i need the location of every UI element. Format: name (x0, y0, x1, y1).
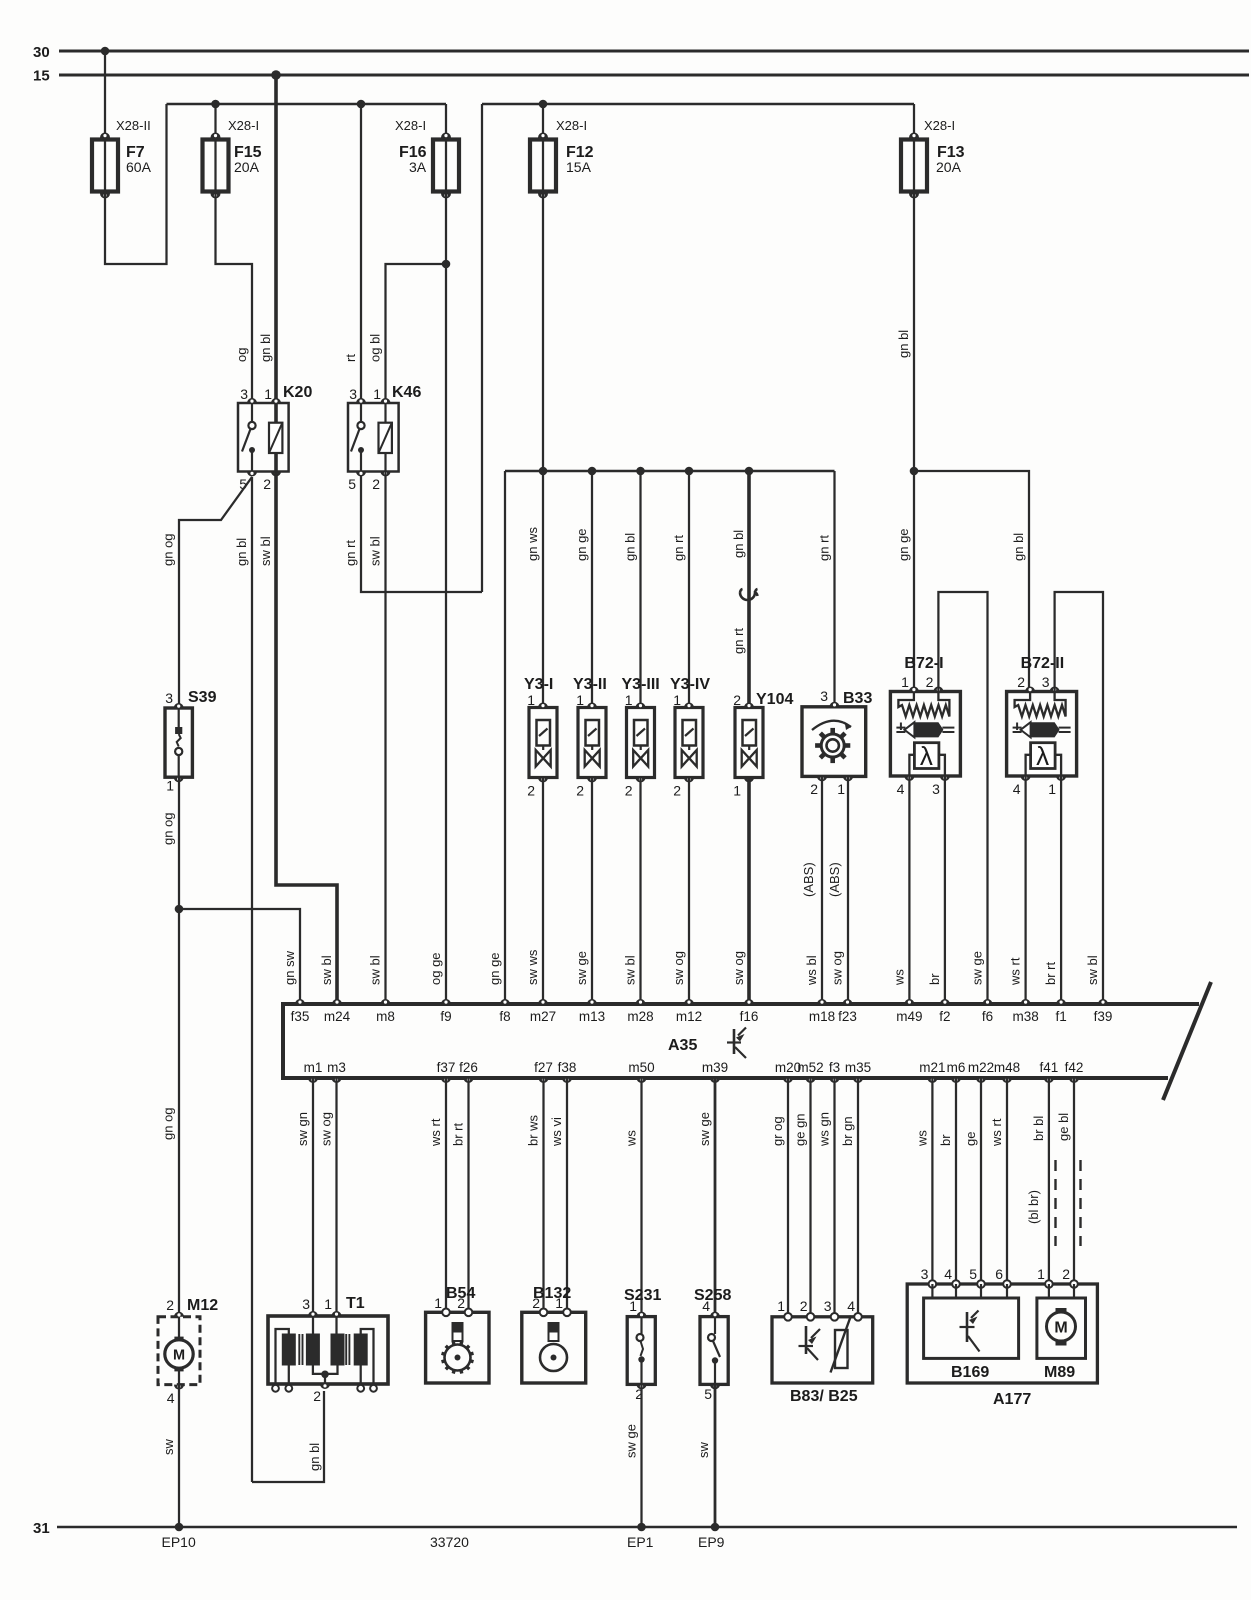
svg-text:gn bl: gn bl (1011, 533, 1026, 561)
svg-text:ws rt: ws rt (1008, 957, 1023, 986)
svg-text:ws rt: ws rt (428, 1118, 443, 1147)
switch S258 (694, 1287, 731, 1402)
svg-text:λ: λ (920, 741, 933, 771)
svg-text:1: 1 (166, 778, 174, 794)
svg-text:1: 1 (527, 692, 535, 708)
pin A35/f38 (562, 1078, 572, 1083)
pin A35/f8 (500, 999, 510, 1004)
wire A35 m3 sw og to T1 pin1 (335, 1078, 337, 1316)
pin A35/m35 (853, 1078, 863, 1083)
svg-text:og: og (234, 348, 249, 362)
svg-text:3: 3 (1042, 674, 1050, 690)
svg-text:m38: m38 (1012, 1009, 1038, 1024)
svg-text:3A: 3A (409, 159, 427, 175)
svg-text:m3: m3 (327, 1060, 346, 1075)
svg-text:3: 3 (302, 1296, 310, 1312)
svg-text:og bl: og bl (368, 334, 383, 362)
svg-text:ws: ws (891, 969, 906, 986)
svg-text:2: 2 (926, 674, 934, 690)
wire A35 m6 br to A177 pin4 (955, 1078, 957, 1284)
svg-text:M89: M89 (1044, 1364, 1075, 1381)
fuse F16 (433, 140, 459, 192)
svg-text:20A: 20A (234, 159, 260, 175)
svg-text:5: 5 (704, 1386, 712, 1402)
wire valve supply bus (505, 470, 835, 473)
svg-text:1: 1 (625, 692, 633, 708)
pin A35/f6 (983, 999, 993, 1004)
wire F16 output og ge to A35 f9 (445, 192, 447, 1001)
solenoid valve Y3-IV (670, 676, 710, 799)
svg-text:1: 1 (673, 692, 681, 708)
svg-text:X28-I: X28-I (924, 118, 955, 133)
svg-text:1: 1 (373, 386, 381, 402)
pin A35/m48 (1002, 1078, 1012, 1083)
pin A35/m8 (381, 999, 391, 1004)
svg-text:f16: f16 (740, 1009, 759, 1024)
wire rail to F15 (214, 104, 216, 140)
svg-text:15A: 15A (566, 159, 592, 175)
svg-text:sw bl: sw bl (623, 955, 638, 985)
svg-text:gn ge: gn ge (487, 952, 502, 985)
svg-text:og ge: og ge (428, 952, 443, 985)
pin A35/f41 (1044, 1078, 1054, 1083)
pin A35/m27 (538, 999, 548, 1004)
wire B72-I pin4 ws to A35 m49 (908, 776, 910, 1000)
svg-text:EP10: EP10 (162, 1534, 196, 1550)
pin A35/f1 (1056, 999, 1066, 1004)
svg-text:ws bl: ws bl (804, 955, 819, 986)
svg-text:sw: sw (161, 1439, 176, 1456)
wire A35 f3 ws gn to B83 pin3 (833, 1078, 835, 1317)
fuse F7 (92, 140, 118, 192)
switch S231 (624, 1287, 661, 1402)
wire A35 m39 sw ge to S258 pin4 (714, 1078, 717, 1317)
pin A35/m6 (951, 1078, 961, 1083)
svg-text:f23: f23 (838, 1009, 857, 1024)
svg-text:K20: K20 (283, 384, 312, 401)
wire A35 f41 br bl to A177 pin1 (1048, 1078, 1050, 1284)
svg-text:gn bl: gn bl (234, 538, 249, 566)
wire rail to F12 (542, 104, 544, 140)
svg-text:sw ge: sw ge (697, 1112, 712, 1146)
wire alternate colour dash mark f41 (1054, 1160, 1056, 1246)
svg-text:ws vi: ws vi (549, 1117, 564, 1147)
svg-text:ge bl: ge bl (1056, 1113, 1071, 1141)
svg-text:B33: B33 (843, 690, 872, 707)
wire Y3-I sw ws to A35 m27 (542, 778, 544, 1001)
svg-text:Y3-IV: Y3-IV (670, 676, 710, 693)
svg-text:2: 2 (166, 1297, 174, 1313)
svg-text:gn og: gn og (161, 1107, 176, 1140)
wire F13 output gn bl (913, 192, 915, 472)
wire terminal 31 ground rail (57, 1526, 1237, 1529)
svg-text:X28-II: X28-II (116, 118, 151, 133)
svg-text:3: 3 (240, 386, 248, 402)
svg-text:m48: m48 (994, 1060, 1020, 1075)
svg-text:m8: m8 (376, 1009, 395, 1024)
svg-text:1: 1 (777, 1298, 785, 1314)
svg-text:m35: m35 (845, 1060, 871, 1075)
wire rail to F16 (445, 104, 447, 140)
wire A35 m35 br gn to B83 pin4 (857, 1078, 859, 1317)
switch S39 (165, 689, 217, 794)
svg-text:sw gn: sw gn (295, 1112, 310, 1146)
svg-text:sw og: sw og (731, 951, 746, 985)
pin A35/m24 (332, 999, 342, 1004)
svg-text:X28-I: X28-I (228, 118, 259, 133)
svg-text:(ABS): (ABS) (801, 862, 816, 897)
svg-text:4: 4 (847, 1298, 855, 1314)
svg-text:20A: 20A (936, 159, 962, 175)
svg-text:S231: S231 (624, 1287, 661, 1304)
wire A35 f26 br rt to B54 pin2 (467, 1078, 469, 1312)
wire bus to Y104 gn bl / gn rt thick (747, 471, 751, 708)
svg-text:Y104: Y104 (756, 691, 793, 708)
wire A35 m1 sw gn to T1 pin3 (312, 1078, 314, 1316)
svg-text:1: 1 (837, 781, 845, 797)
svg-text:m22: m22 (968, 1060, 994, 1075)
svg-text:B169: B169 (951, 1364, 989, 1381)
svg-text:sw bl: sw bl (368, 955, 383, 985)
svg-text:2: 2 (625, 783, 633, 799)
pin A35/f16 (744, 999, 754, 1004)
wire A35 m50 ws to S231 pin1 (640, 1078, 642, 1317)
pin A35/m38 (1021, 999, 1031, 1004)
wire bus tap gn ge to A35 f8 (504, 471, 506, 1000)
pin A35/m39 (710, 1078, 720, 1083)
svg-text:B54: B54 (446, 1285, 475, 1302)
svg-text:gn rt: gn rt (343, 540, 358, 566)
pin A35/m20 (783, 1078, 793, 1083)
lambda probe B72-I (890, 655, 960, 797)
svg-text:3: 3 (165, 690, 173, 706)
splice arrow on Y104 feed (740, 589, 758, 600)
sensor B33 (802, 688, 872, 797)
wire B72-II pin1 br rt to A35 f1 (1060, 776, 1062, 1000)
svg-text:S39: S39 (188, 689, 217, 706)
solenoid valve Y3-III (622, 676, 660, 799)
svg-text:sw og: sw og (671, 951, 686, 985)
svg-text:m39: m39 (702, 1060, 728, 1075)
svg-text:f3: f3 (829, 1060, 840, 1075)
node junction 30/F7 (101, 47, 110, 56)
svg-text:gn og: gn og (161, 533, 176, 566)
ground EP9 (711, 1523, 720, 1532)
svg-text:sw ws: sw ws (525, 949, 540, 985)
pin A35/f42 (1069, 1078, 1079, 1083)
svg-text:3: 3 (824, 1298, 832, 1314)
pin A35/m12 (684, 999, 694, 1004)
control unit A177 (907, 1266, 1097, 1408)
wire K20 pin2 sw bl thick to A35 m24 (276, 472, 337, 1001)
pin A35/f37 (441, 1078, 451, 1083)
wire S258 pin5 sw to ground EP9 (714, 1384, 717, 1527)
ignition coil T1 (268, 1295, 388, 1404)
svg-text:M: M (1054, 1320, 1067, 1337)
svg-text:5: 5 (348, 476, 356, 492)
wire B33 pin1 sw og to A35 f23 (847, 776, 849, 1000)
wire A35 m52 ge gn to B83 pin2 (809, 1078, 811, 1317)
svg-text:1: 1 (1037, 1266, 1045, 1282)
svg-text:br bl: br bl (1031, 1116, 1046, 1141)
svg-text:A35: A35 (668, 1037, 697, 1054)
pin A35/m18 (817, 999, 827, 1004)
svg-text:gn rt: gn rt (817, 535, 832, 561)
svg-text:31: 31 (33, 1520, 50, 1537)
pin A35/f9 (441, 999, 451, 1004)
pin A35/m49 (904, 999, 914, 1004)
node F16 output branch (442, 260, 451, 269)
svg-text:m50: m50 (628, 1060, 654, 1075)
svg-text:br gn: br gn (840, 1116, 855, 1146)
svg-text:K46: K46 (392, 384, 421, 401)
svg-text:sw bl: sw bl (368, 536, 383, 566)
sensor B132 (522, 1285, 586, 1383)
wire A35 m48 ws rt to A177 pin6 (1006, 1078, 1008, 1284)
node bus x543 (539, 467, 548, 476)
wire bus to Y3-I gn ws (542, 471, 544, 708)
sensor B54 (426, 1285, 489, 1383)
svg-text:m28: m28 (627, 1009, 653, 1024)
wire F12 output to valve bus (542, 192, 544, 472)
wire K20 pin5 gn og to S39 pin3 (179, 477, 252, 708)
wire F15 output to K20 pin3 og (216, 192, 253, 404)
svg-text:m6: m6 (947, 1060, 966, 1075)
ground EP10 (175, 1523, 184, 1532)
wire B72-II pin4 ws rt to A35 m38 (1024, 776, 1026, 1000)
node bus x749 (745, 467, 754, 476)
wire A35 f37 ws rt to B54 pin1 (445, 1078, 447, 1312)
wire S231 pin2 sw ge to ground EP1 (640, 1384, 642, 1527)
svg-text:sw: sw (696, 1442, 711, 1459)
svg-text:2: 2 (673, 783, 681, 799)
ground EP1 (637, 1523, 646, 1532)
wire rail to K46 pin3 rt (360, 104, 362, 403)
node bus x689 (685, 467, 694, 476)
node S39 branch (175, 905, 184, 914)
sensor B83/B25 (772, 1298, 873, 1405)
svg-text:gn rt: gn rt (731, 628, 746, 654)
fuse F12 (530, 140, 556, 192)
pin A35/f26 (464, 1078, 474, 1083)
svg-text:1: 1 (264, 386, 272, 402)
wire 15 gn bl thick to K20 pin1 (274, 75, 278, 403)
svg-text:f38: f38 (558, 1060, 577, 1075)
svg-text:2: 2 (372, 476, 380, 492)
svg-text:Y3-II: Y3-II (573, 676, 607, 693)
svg-text:sw ge: sw ge (624, 1424, 639, 1458)
svg-text:f26: f26 (459, 1060, 478, 1075)
svg-text:4: 4 (944, 1266, 952, 1282)
solenoid valve Y3-I (524, 676, 557, 799)
wire X28 rail right segment (482, 103, 914, 106)
pin A35/f27 (539, 1078, 549, 1083)
svg-text:f8: f8 (499, 1009, 510, 1024)
svg-text:m1: m1 (304, 1060, 323, 1075)
svg-text:f35: f35 (291, 1009, 310, 1024)
svg-text:f27: f27 (534, 1060, 553, 1075)
relay K20 (238, 384, 312, 492)
pin A35/m52 (806, 1078, 816, 1083)
wire S39 pin1 gn og down to M12 (178, 777, 180, 1316)
pin A35/f35 (295, 999, 305, 1004)
wire F13 gn ge to B72-I pin1 (913, 471, 915, 692)
svg-text:Y3-III: Y3-III (622, 676, 660, 693)
svg-text:sw bl: sw bl (319, 955, 334, 985)
wire terminal 30 bus (59, 50, 1249, 53)
pin A35/f2 (940, 999, 950, 1004)
svg-text:Y3-I: Y3-I (524, 676, 553, 693)
pin A35/f23 (843, 999, 853, 1004)
svg-text:sw og: sw og (830, 951, 845, 985)
svg-text:gn ws: gn ws (525, 527, 540, 561)
svg-text:EP9: EP9 (698, 1534, 725, 1550)
node bus x640.5 (636, 467, 645, 476)
wire gn bl bottom jog to T1 pin2 (252, 1391, 324, 1482)
pin A35/m21 (927, 1078, 937, 1083)
svg-text:(bl br): (bl br) (1026, 1190, 1041, 1224)
svg-text:sw ge: sw ge (970, 951, 985, 985)
svg-text:X28-I: X28-I (395, 118, 426, 133)
svg-text:30: 30 (33, 44, 50, 61)
node rail/F12 (539, 100, 548, 109)
svg-text:1: 1 (434, 1295, 442, 1311)
svg-text:1: 1 (733, 783, 741, 799)
svg-text:S258: S258 (694, 1287, 731, 1304)
svg-text:m52: m52 (797, 1060, 823, 1075)
svg-text:sw bl: sw bl (1085, 955, 1100, 985)
svg-text:2: 2 (527, 783, 535, 799)
svg-text:f39: f39 (1094, 1009, 1113, 1024)
svg-text:f41: f41 (1040, 1060, 1059, 1075)
svg-text:M: M (173, 1348, 185, 1364)
wire A35 f38 ws vi to B132 pin1 (566, 1078, 568, 1312)
svg-text:m12: m12 (676, 1009, 702, 1024)
svg-text:(ABS): (ABS) (827, 862, 842, 897)
svg-text:B132: B132 (533, 1285, 571, 1302)
svg-text:gn rt: gn rt (671, 535, 686, 561)
wire bus to Y3-IV gn rt (688, 471, 690, 708)
wire X28 rail left segment (167, 103, 447, 106)
svg-text:2: 2 (733, 692, 741, 708)
svg-text:sw bl: sw bl (258, 536, 273, 566)
wire K46 pin2 sw bl to A35 m8 (384, 472, 386, 1001)
svg-text:f42: f42 (1065, 1060, 1084, 1075)
svg-text:3: 3 (820, 688, 828, 704)
svg-text:gn bl: gn bl (258, 334, 273, 362)
svg-text:gn ge: gn ge (574, 528, 589, 561)
svg-text:ws: ws (624, 1130, 639, 1147)
pin A35/m28 (636, 999, 646, 1004)
svg-text:m24: m24 (324, 1009, 351, 1024)
pin A35/m22 (976, 1078, 986, 1083)
wire F16 branch og bl to K46 pin1 (386, 264, 447, 403)
node junction 15/K20 (271, 70, 281, 80)
wire F13 branch gn bl to B72-II pin2 (914, 471, 1029, 692)
svg-text:ge: ge (963, 1132, 978, 1146)
svg-text:3: 3 (349, 386, 357, 402)
svg-text:6: 6 (995, 1266, 1003, 1282)
svg-text:ws: ws (914, 1130, 929, 1147)
wire F7 output to X28 rail (105, 104, 167, 264)
svg-text:gn bl: gn bl (896, 330, 911, 358)
wire M12 pin4 sw to ground 31 (178, 1384, 180, 1527)
wire rail to F13 (913, 104, 915, 140)
svg-text:f1: f1 (1055, 1009, 1066, 1024)
svg-text:2: 2 (1017, 674, 1025, 690)
svg-text:f6: f6 (982, 1009, 993, 1024)
svg-text:3: 3 (932, 781, 940, 797)
svg-text:EP1: EP1 (627, 1534, 654, 1550)
svg-text:4: 4 (167, 1390, 175, 1406)
wire A35 m21 ws to A177 pin3 (931, 1078, 933, 1284)
wire alternate colour dash mark f42 (1079, 1160, 1081, 1246)
wire Y3-II sw ge to A35 m13 (591, 778, 593, 1001)
svg-text:2: 2 (263, 476, 271, 492)
wire Y104 sw og thick to A35 f16 (747, 778, 751, 1001)
motor M12 (158, 1297, 218, 1406)
svg-text:gr og: gr og (770, 1116, 785, 1146)
wire rail riser to K46 pin5 feed (481, 104, 483, 592)
svg-text:gn sw: gn sw (282, 950, 297, 985)
wire gn sw branch to A35 f35 (179, 909, 300, 1000)
wire B72-I pin2 sw ge to A35 f6 (938, 592, 987, 1000)
svg-text:1: 1 (324, 1296, 332, 1312)
svg-text:gn bl: gn bl (623, 533, 638, 561)
wire K20 pin5 gn bl long down (251, 477, 253, 1482)
svg-text:B72-II: B72-II (1021, 655, 1065, 672)
svg-text:1: 1 (901, 674, 909, 690)
svg-text:2: 2 (800, 1298, 808, 1314)
pin A35/f39 (1098, 999, 1108, 1004)
svg-text:f37: f37 (437, 1060, 456, 1075)
svg-text:4: 4 (897, 781, 905, 797)
pin A35/m13 (587, 999, 597, 1004)
svg-text:m13: m13 (579, 1009, 605, 1024)
wire A35 f27 br ws to B132 pin2 (542, 1078, 544, 1312)
svg-text:60A: 60A (126, 159, 152, 175)
svg-text:m49: m49 (896, 1009, 922, 1024)
svg-text:X28-I: X28-I (556, 118, 587, 133)
solenoid valve Y3-II (573, 676, 607, 799)
node rail/F15 (211, 100, 220, 109)
svg-text:2: 2 (313, 1388, 321, 1404)
svg-text:f2: f2 (939, 1009, 950, 1024)
lambda probe B72-II (1007, 655, 1077, 797)
wire A35 m20 gr og to B83 pin1 (787, 1078, 789, 1317)
svg-text:1: 1 (576, 692, 584, 708)
svg-text:M12: M12 (187, 1297, 218, 1314)
transistor icon in A35 (733, 1029, 736, 1054)
svg-text:1: 1 (1048, 781, 1056, 797)
svg-text:5: 5 (969, 1266, 977, 1282)
wire A35 m22 ge to A177 pin5 (980, 1078, 982, 1284)
motor M89 (1037, 1298, 1086, 1381)
wire K46 pin5 gn rt to rail riser (361, 472, 482, 593)
pin A35/f3 (830, 1078, 840, 1083)
svg-text:rt: rt (343, 354, 358, 362)
wire terminal 15 bus (59, 74, 1249, 77)
wire B33 pin2 ws bl to A35 m18 (821, 776, 823, 1000)
svg-text:gn bl: gn bl (307, 1443, 322, 1471)
svg-text:B83/ B25: B83/ B25 (790, 1388, 858, 1405)
svg-text:br rt: br rt (1043, 962, 1058, 986)
svg-text:m21: m21 (919, 1060, 945, 1075)
wire bus to Y3-III gn bl (639, 471, 641, 708)
svg-text:2: 2 (1062, 1266, 1070, 1282)
wire B72-I pin3 br to A35 f2 (944, 776, 946, 1000)
svg-text:f9: f9 (440, 1009, 451, 1024)
